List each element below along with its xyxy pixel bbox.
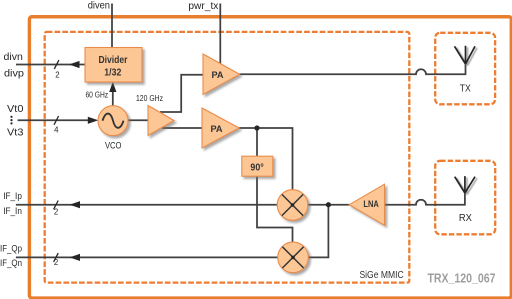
- svg-text:VCO: VCO: [105, 140, 122, 150]
- wire buffer to PA2 (lower branch): [162, 127, 203, 129]
- wire buffer to PA1 (upper branch): [160, 75, 203, 112]
- bus slash IF_Q: [54, 253, 59, 262]
- wire divider output to divn/divp pads: [16, 64, 85, 66]
- VCO sine wave: [103, 114, 124, 128]
- divider text: [99, 54, 128, 78]
- arrow into VCO: [88, 117, 99, 124]
- wire junction into 90deg shifter: [256, 128, 258, 156]
- arrow on IF_I wire: [70, 201, 81, 208]
- wire PA2 output to junction: [239, 127, 257, 129]
- LNA: [349, 184, 384, 225]
- TX antenna symbol shadow: [457, 47, 478, 65]
- svg-text:divp: divp: [4, 69, 24, 80]
- svg-text:PA: PA: [210, 124, 222, 135]
- TX antenna symbol: [455, 46, 476, 64]
- wire IF_Q output from Q-mixer: [16, 256, 279, 258]
- svg-text:90°: 90°: [250, 162, 263, 173]
- RX antenna box: [435, 161, 495, 235]
- 90 degree phase shifter: [242, 156, 273, 176]
- node LO junction: [254, 125, 259, 130]
- svg-text:SiGe MMIC: SiGe MMIC: [359, 270, 403, 281]
- svg-text:RX: RX: [459, 213, 472, 224]
- svg-text:TRX_120_067: TRX_120_067: [427, 271, 495, 286]
- svg-text:Vt0: Vt0: [7, 104, 24, 115]
- wire diven into divider: [111, 4, 113, 48]
- bus slash divn/divp: [54, 60, 59, 69]
- power amplifier PA2: [202, 108, 239, 148]
- wire PA1 to TX antenna with bond wire hump: [240, 64, 466, 74]
- RX antenna symbol shadow: [457, 178, 477, 195]
- svg-text:IF_Qn: IF_Qn: [0, 258, 22, 269]
- svg-text:pwr_tx: pwr_tx: [188, 1, 218, 12]
- svg-text:TX: TX: [460, 83, 471, 94]
- mixer I: [277, 190, 308, 221]
- svg-text:2: 2: [55, 70, 59, 79]
- bus slash Vt: [54, 116, 59, 125]
- svg-text:LNA: LNA: [363, 199, 379, 209]
- svg-text:diven: diven: [88, 1, 110, 12]
- wire RX antenna to LNA with bond wire hump: [385, 193, 465, 205]
- VCO circle: [98, 106, 128, 136]
- svg-text:IF_In: IF_In: [3, 206, 22, 217]
- svg-text:1/32: 1/32: [104, 67, 121, 79]
- wire pwr_tx into PA1: [219, 4, 221, 65]
- buffer amplifier: [148, 106, 174, 136]
- ellipsis dots Vt: [10, 116, 12, 125]
- mixer I cross: [282, 194, 303, 215]
- wire 90deg shifter to Q-mixer LO: [257, 176, 293, 242]
- svg-text:2: 2: [54, 258, 58, 267]
- wire RF junction down to Q-mixer: [309, 205, 329, 258]
- svg-text:divn: divn: [4, 52, 23, 63]
- RX antenna symbol: [455, 176, 475, 193]
- wire VCO to buffer: [128, 119, 150, 121]
- arrow into divider: [109, 82, 116, 92]
- svg-text:IF_Ip: IF_Ip: [3, 191, 22, 202]
- svg-text:2: 2: [54, 207, 58, 216]
- divider block 1/32: [85, 48, 142, 83]
- node RF junction: [326, 202, 331, 207]
- wire IF_I output from I-mixer: [16, 204, 278, 206]
- arrow on IF_Q wire: [70, 254, 81, 261]
- SiGe MMIC chip boundary (dashed): [45, 32, 410, 283]
- mixer Q: [278, 242, 309, 273]
- svg-text:IF_Qp: IF_Qp: [0, 244, 22, 255]
- bus slash IF_I: [54, 201, 59, 210]
- svg-text:Divider: Divider: [99, 54, 128, 66]
- svg-text:Vt3: Vt3: [7, 128, 24, 139]
- wire Vt tuning bus into VCO: [18, 119, 90, 121]
- wire LNA output to I-mixer RF: [308, 204, 350, 206]
- mixer Q cross: [282, 247, 303, 268]
- svg-text:120 GHz: 120 GHz: [136, 93, 163, 103]
- svg-text:PA: PA: [211, 70, 223, 81]
- power amplifier PA1: [203, 54, 240, 95]
- TX antenna box: [435, 33, 495, 105]
- wire VCO to divider 60 GHz: [112, 84, 114, 106]
- svg-text:60 GHz: 60 GHz: [85, 89, 108, 99]
- svg-text:4: 4: [54, 125, 59, 134]
- wire junction to I-mixer LO: [257, 128, 293, 190]
- arrow on divn/divp wire: [69, 61, 80, 68]
